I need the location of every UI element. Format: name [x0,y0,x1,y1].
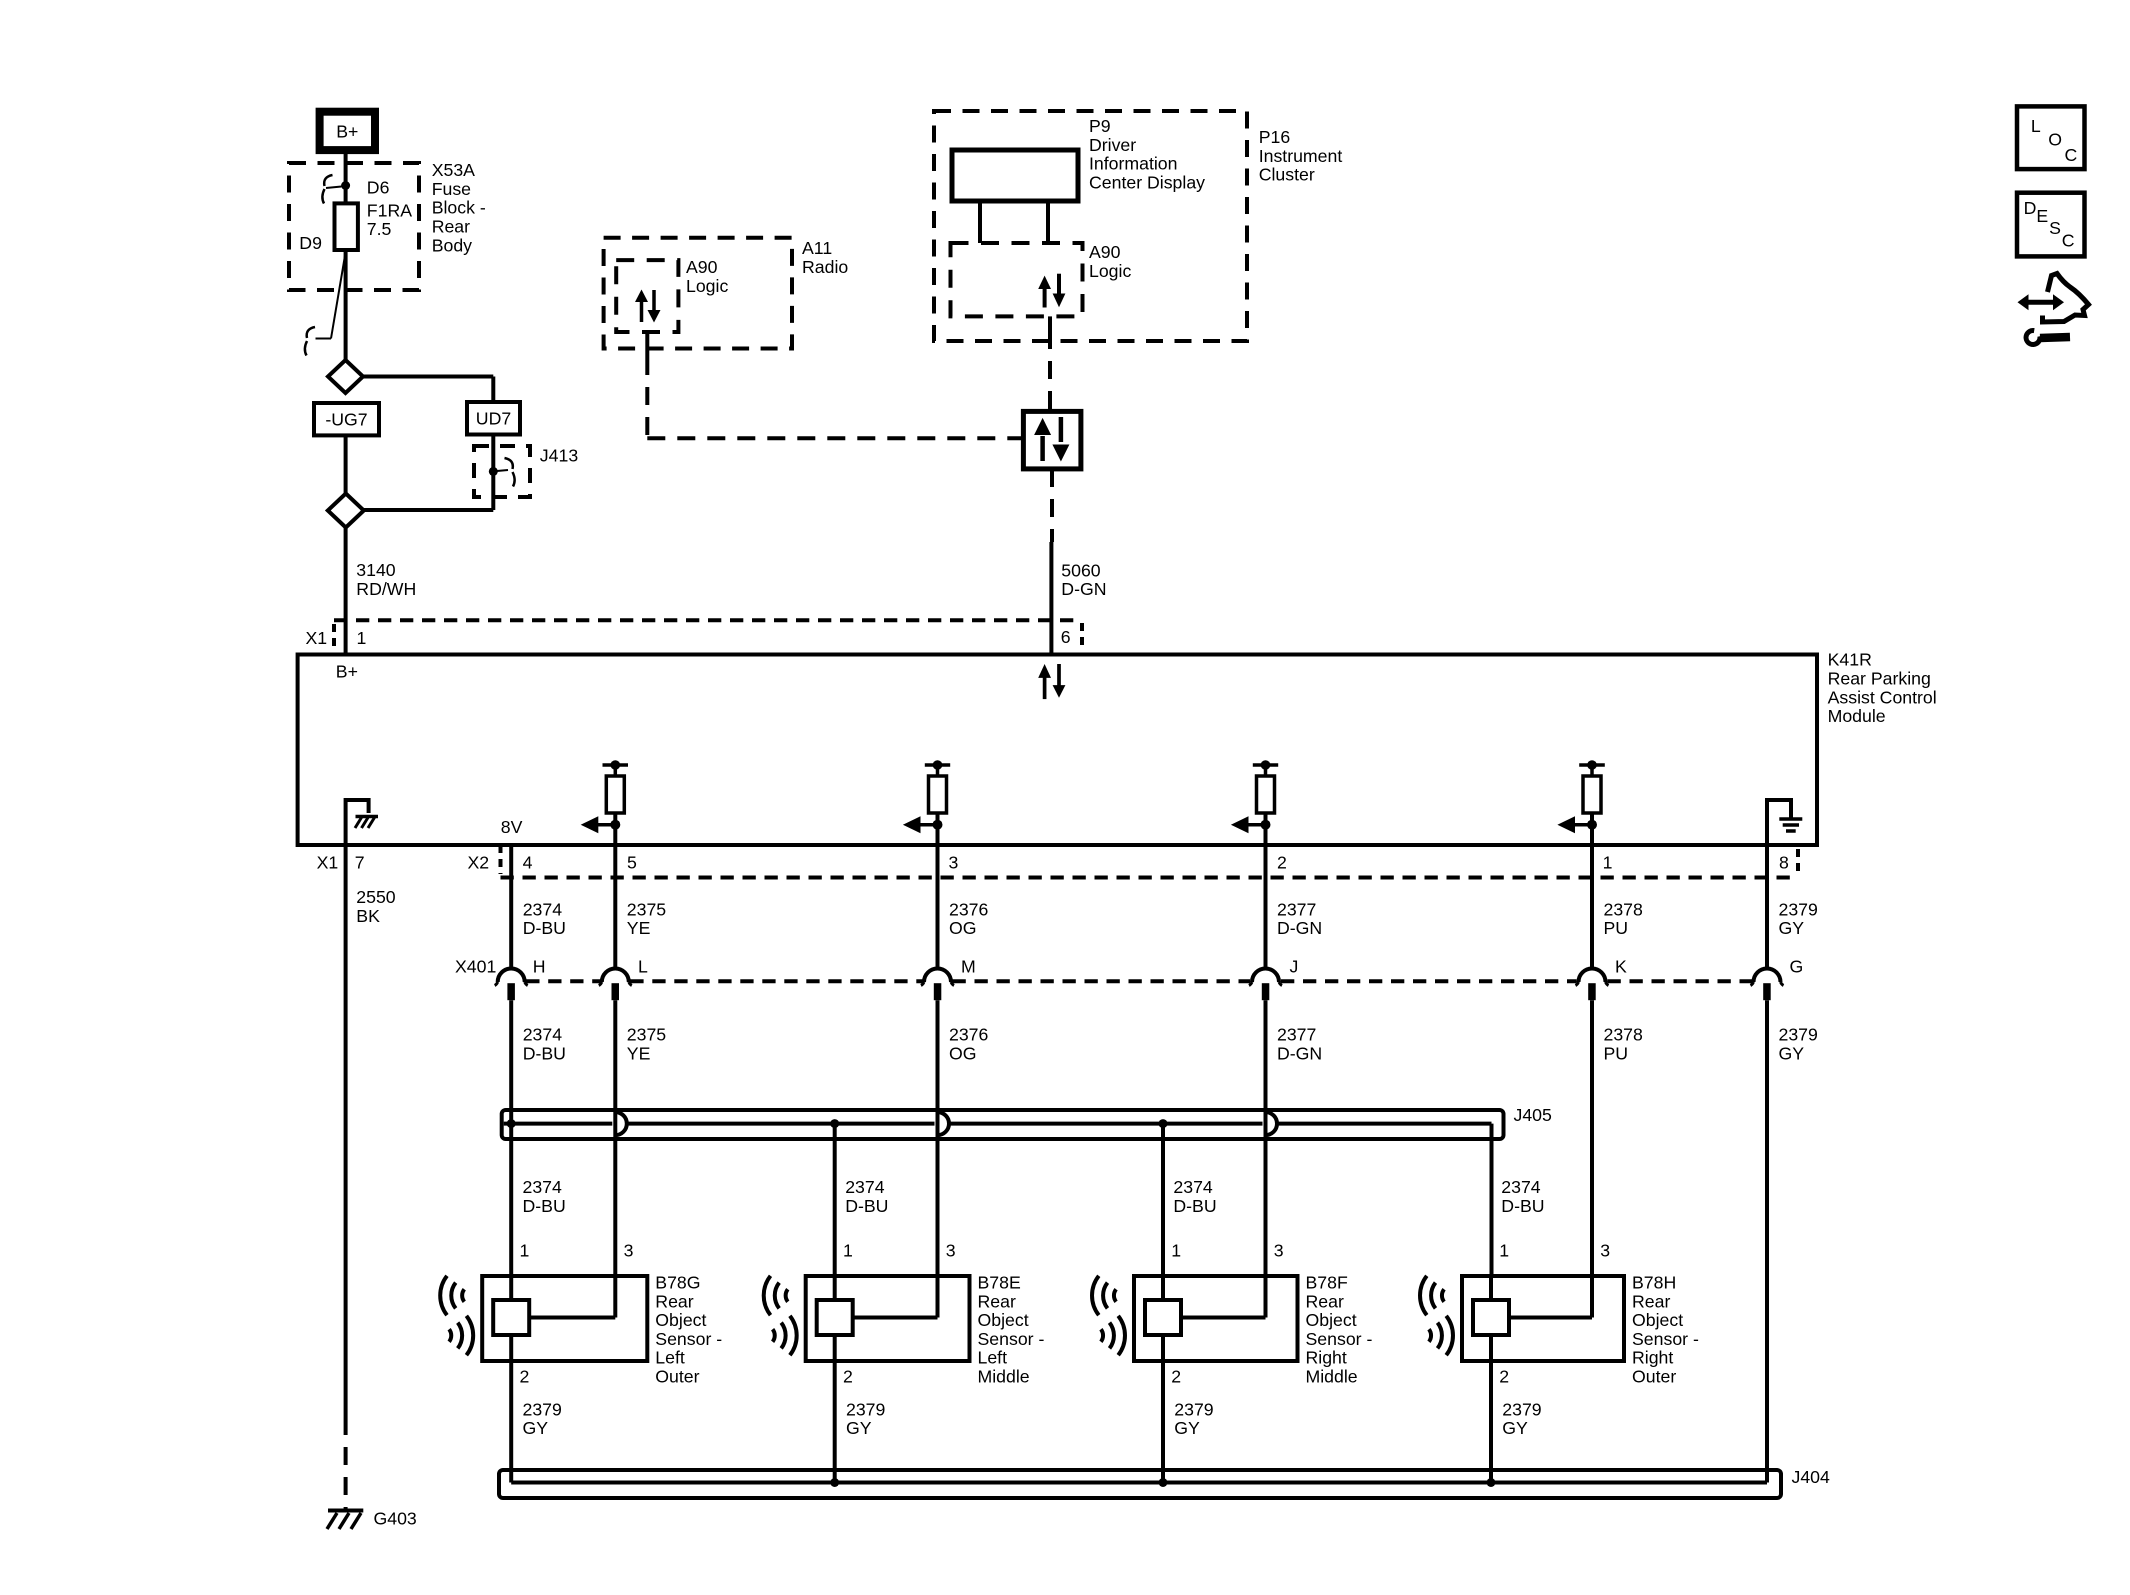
wire 2379 GY below X401 [1765,1000,1769,1482]
wire 2379 GY from B78G [509,1361,513,1483]
internal ground (pin 8) [1767,800,1791,845]
wire 2375 YE below X401 [613,1000,617,1276]
connector X1 dashed line [334,618,1082,622]
svg-text:2: 2 [520,1367,530,1387]
radio A11 dashed box [604,238,792,349]
svg-text:Object: Object [655,1310,706,1330]
svg-text:YE: YE [627,918,651,938]
svg-text:D: D [2024,198,2037,218]
svg-text:2379: 2379 [1779,899,1818,919]
legend icon double arrow [2027,300,2055,305]
module K41R Rear Parking Assist Control Module [298,655,1817,846]
wire 3140 RD/WH [344,528,348,655]
terminal clip J413 [505,458,515,487]
svg-text:D-GN: D-GN [1277,918,1322,938]
svg-text:X1: X1 [306,628,328,648]
svg-text:L: L [2031,116,2041,136]
svg-text:3: 3 [624,1241,634,1261]
svg-text:3: 3 [946,1241,956,1261]
output driver (resistor+arrow) at pin x=938 [925,763,950,767]
svg-text:-UG7: -UG7 [325,409,367,429]
ground G403 [328,1509,363,1513]
J405 crossover hop at x=1266 [1266,1112,1278,1135]
svg-text:GY: GY [1174,1418,1200,1438]
output driver (resistor+arrow) at pin x=1266 [1253,763,1278,767]
svg-text:D-BU: D-BU [523,918,566,938]
fuse block X53A dashed box [289,163,419,290]
svg-text:1: 1 [1499,1241,1509,1261]
J405 crossover hop at x=938 [938,1112,950,1135]
svg-text:1: 1 [1603,853,1613,873]
svg-text:5060: 5060 [1061,560,1101,580]
svg-text:2: 2 [1171,1367,1181,1387]
wire 2379 GY from B78E [833,1361,837,1483]
svg-text:Driver: Driver [1089,135,1136,155]
svg-text:PU: PU [1604,1043,1629,1063]
svg-text:2: 2 [1499,1367,1509,1387]
svg-text:Rear: Rear [655,1291,693,1311]
wire UD7 down through J413 [491,435,495,511]
serial data arrows (module) [1043,676,1047,699]
svg-text:Center Display: Center Display [1089,172,1205,192]
wires P9 to A90 [978,201,982,243]
sonar waves B78E [786,1289,788,1301]
svg-text:B78F: B78F [1306,1273,1348,1293]
output driver (resistor+arrow) at pin x=615 [603,763,629,767]
svg-text:D-BU: D-BU [1501,1196,1544,1216]
svg-text:Rear: Rear [1306,1291,1344,1311]
svg-text:D-BU: D-BU [1173,1196,1216,1216]
svg-text:Assist Control: Assist Control [1828,687,1937,707]
wire 2379 GY module to X401 [1765,845,1769,969]
legend icon body outline [2043,274,2089,323]
wire -UG7 down [344,435,348,493]
svg-text:A90: A90 [1089,242,1121,262]
svg-text:2379: 2379 [1502,1399,1541,1419]
battery terminal B+ [320,112,375,150]
output driver (resistor+arrow) at pin x=1592 [1579,763,1605,767]
svg-text:2375: 2375 [627,899,667,919]
svg-text:X401: X401 [455,957,496,977]
svg-text:7.5: 7.5 [367,219,392,239]
svg-text:C: C [2065,145,2078,165]
wire fuse to diamond [344,250,348,360]
svg-text:3140: 3140 [356,560,396,580]
wire 2378 PU module to X401 [1590,845,1594,969]
svg-text:Information: Information [1089,154,1177,174]
legend DESC box [2017,193,2085,257]
X401 terminal H [498,968,525,982]
internal ground (pin 7) [346,800,369,845]
wire 2379 GY from B78H [1489,1361,1493,1483]
svg-text:X53A: X53A [432,160,475,180]
svg-text:6: 6 [1061,627,1071,647]
wire 2378 PU below X401 [1590,1000,1594,1276]
svg-text:Sensor -: Sensor - [1306,1329,1373,1349]
wire radio serial data [645,332,649,357]
wire 2376 OG below X401 [936,1000,940,1276]
RPO box UD7 [467,402,520,435]
svg-text:J413: J413 [540,446,579,466]
X401 terminal J [1252,968,1279,982]
svg-text:D-BU: D-BU [523,1043,566,1063]
svg-text:B78H: B78H [1632,1273,1676,1293]
svg-text:Middle: Middle [1306,1367,1358,1387]
svg-text:L: L [638,957,648,977]
svg-text:Right: Right [1632,1348,1673,1368]
svg-text:1: 1 [520,1241,530,1261]
svg-text:O: O [2048,130,2062,150]
svg-text:D-BU: D-BU [845,1196,888,1216]
svg-text:Radio: Radio [802,257,848,277]
svg-text:2550: 2550 [356,887,396,907]
X401 terminal K [1579,968,1606,982]
svg-text:A11: A11 [802,238,832,258]
svg-text:X2: X2 [468,853,490,873]
svg-text:Cluster: Cluster [1259,165,1315,185]
svg-text:Outer: Outer [1632,1367,1676,1387]
X401 terminal G [1754,968,1781,982]
svg-text:2378: 2378 [1604,899,1644,919]
svg-text:2: 2 [843,1367,853,1387]
svg-text:Rear: Rear [978,1291,1016,1311]
X401 terminal M [924,968,951,982]
wire 2376 OG module to X401 [936,845,940,969]
svg-text:2376: 2376 [949,1025,989,1045]
svg-text:Rear Parking: Rear Parking [1828,669,1931,689]
svg-text:1: 1 [357,628,367,648]
svg-text:Block -: Block - [432,198,486,218]
display P9 box [952,150,1078,201]
svg-text:G: G [1790,957,1804,977]
logic A90 (cluster) dashed box [951,243,1083,316]
svg-text:7: 7 [355,853,365,873]
svg-text:2379: 2379 [846,1399,885,1419]
svg-text:2374: 2374 [845,1177,885,1197]
svg-text:UD7: UD7 [476,409,511,429]
wire 2377 D-GN below X401 [1264,1000,1268,1276]
serial data arrows (radio) [640,299,644,322]
svg-text:3: 3 [1600,1241,1610,1261]
wire 2375 YE module to X401 [613,845,617,969]
svg-text:2377: 2377 [1277,899,1316,919]
svg-text:B78E: B78E [978,1273,1021,1293]
wire 2377 D-GN module to X401 [1264,845,1268,969]
svg-text:C: C [2062,231,2075,251]
svg-text:1: 1 [843,1241,853,1261]
svg-text:Sensor -: Sensor - [655,1329,722,1349]
svg-text:OG: OG [949,1043,977,1063]
svg-text:P9: P9 [1089,116,1111,136]
svg-text:Fuse: Fuse [432,179,471,199]
svg-text:Outer: Outer [655,1367,699,1387]
svg-text:Left: Left [978,1348,1008,1368]
svg-text:5: 5 [627,853,637,873]
svg-text:M: M [961,957,976,977]
RPO box -UG7 [314,403,379,435]
svg-text:Body: Body [432,235,472,255]
terminal clip lower [305,327,315,356]
svg-text:A90: A90 [686,257,718,277]
svg-text:B+: B+ [336,661,358,681]
svg-text:Rear: Rear [432,217,470,237]
instrument cluster P16 dashed box [934,111,1247,341]
svg-text:8: 8 [1779,853,1789,873]
logic A90 (radio) dashed box [616,260,678,332]
svg-text:D-GN: D-GN [1277,1043,1322,1063]
branch wires 2374 D-BU from J405 [833,1124,837,1276]
svg-text:Module: Module [1828,706,1886,726]
svg-text:2375: 2375 [627,1025,667,1045]
svg-text:GY: GY [523,1418,549,1438]
svg-text:K41R: K41R [1828,650,1872,670]
svg-text:Left: Left [655,1348,685,1368]
sonar waves B78F [1114,1289,1116,1301]
serial data link box [1023,411,1081,469]
svg-text:Sensor -: Sensor - [1632,1329,1699,1349]
wire J413 to diamond lower [364,508,494,512]
X401 terminal L [602,968,629,982]
svg-text:PU: PU [1604,918,1629,938]
connector X2 dashed line [499,845,503,874]
svg-text:2379: 2379 [1174,1399,1213,1419]
svg-text:D-BU: D-BU [523,1196,566,1216]
connector X401 dashed line [526,979,600,983]
svg-text:D-GN: D-GN [1061,579,1106,599]
legend LOC box [2017,106,2085,169]
splice pack J404 [499,1470,1781,1498]
svg-text:2374: 2374 [523,1025,563,1045]
svg-text:Object: Object [1306,1310,1357,1330]
svg-text:Right: Right [1306,1348,1347,1368]
svg-text:GY: GY [1779,918,1805,938]
svg-text:Logic: Logic [686,276,728,296]
svg-text:J: J [1290,957,1299,977]
wire 2379 GY from B78F [1161,1361,1165,1483]
svg-text:3: 3 [1274,1241,1284,1261]
svg-text:2374: 2374 [1501,1177,1541,1197]
splice pack J405 [502,1110,1504,1139]
wire cluster serial data [1048,316,1052,331]
svg-text:8V: 8V [501,817,523,837]
svg-text:2374: 2374 [1173,1177,1213,1197]
svg-text:GY: GY [1502,1418,1528,1438]
svg-text:K: K [1615,957,1627,977]
svg-text:J404: J404 [1792,1467,1831,1487]
svg-text:RD/WH: RD/WH [356,579,416,599]
svg-text:Logic: Logic [1089,261,1131,281]
svg-text:BK: BK [356,906,380,926]
splice J413 dashed box [474,446,530,497]
svg-text:X1: X1 [317,853,339,873]
svg-text:Object: Object [978,1310,1029,1330]
wire 2374 D-BU module to X401 [509,845,513,969]
svg-text:H: H [533,957,546,977]
node diamond upper [328,360,363,393]
svg-text:Instrument: Instrument [1259,146,1343,166]
svg-text:Sensor -: Sensor - [978,1329,1045,1349]
fuse switch arm [331,252,346,339]
fuse F1RA 7.5 [335,203,358,250]
sonar waves B78H [1442,1289,1444,1301]
svg-text:2376: 2376 [949,899,989,919]
legend icon wrench [2024,328,2043,347]
svg-text:YE: YE [627,1043,651,1063]
svg-text:3: 3 [949,853,959,873]
svg-text:GY: GY [1779,1043,1805,1063]
svg-text:2379: 2379 [523,1399,562,1419]
svg-text:Rear: Rear [1632,1291,1670,1311]
svg-text:1: 1 [1171,1241,1181,1261]
svg-text:2378: 2378 [1604,1025,1644,1045]
wire diamond to UD7 [363,375,493,379]
svg-text:2: 2 [1277,853,1287,873]
wire 2550 BK [344,845,348,1417]
serial data arrows (cluster) [1043,287,1047,308]
svg-text:OG: OG [949,918,977,938]
svg-text:E: E [2036,206,2048,226]
wire 5060 D-GN [1050,469,1054,542]
wire B+ to fuse block [344,150,348,203]
svg-text:4: 4 [523,853,533,873]
J405 crossover hop at x=615 [615,1112,627,1135]
svg-text:B78G: B78G [655,1273,700,1293]
svg-text:B+: B+ [336,122,358,142]
svg-text:GY: GY [846,1418,872,1438]
sonar waves B78G [462,1289,464,1301]
svg-text:Object: Object [1632,1310,1683,1330]
svg-text:Middle: Middle [978,1367,1030,1387]
svg-text:S: S [2049,218,2061,238]
wire 2374 D-BU below X401 [509,1000,513,1276]
svg-text:2374: 2374 [523,899,563,919]
svg-text:2374: 2374 [523,1177,563,1197]
svg-text:D6: D6 [367,177,390,197]
terminal clip D6 [322,175,332,204]
svg-text:2377: 2377 [1277,1025,1316,1045]
svg-text:2379: 2379 [1779,1025,1818,1045]
svg-text:F1RA: F1RA [367,200,412,220]
svg-text:P16: P16 [1259,127,1291,147]
svg-text:J405: J405 [1514,1105,1553,1125]
node diamond lower [328,494,364,528]
svg-text:D9: D9 [299,233,322,253]
svg-text:G403: G403 [374,1509,417,1529]
